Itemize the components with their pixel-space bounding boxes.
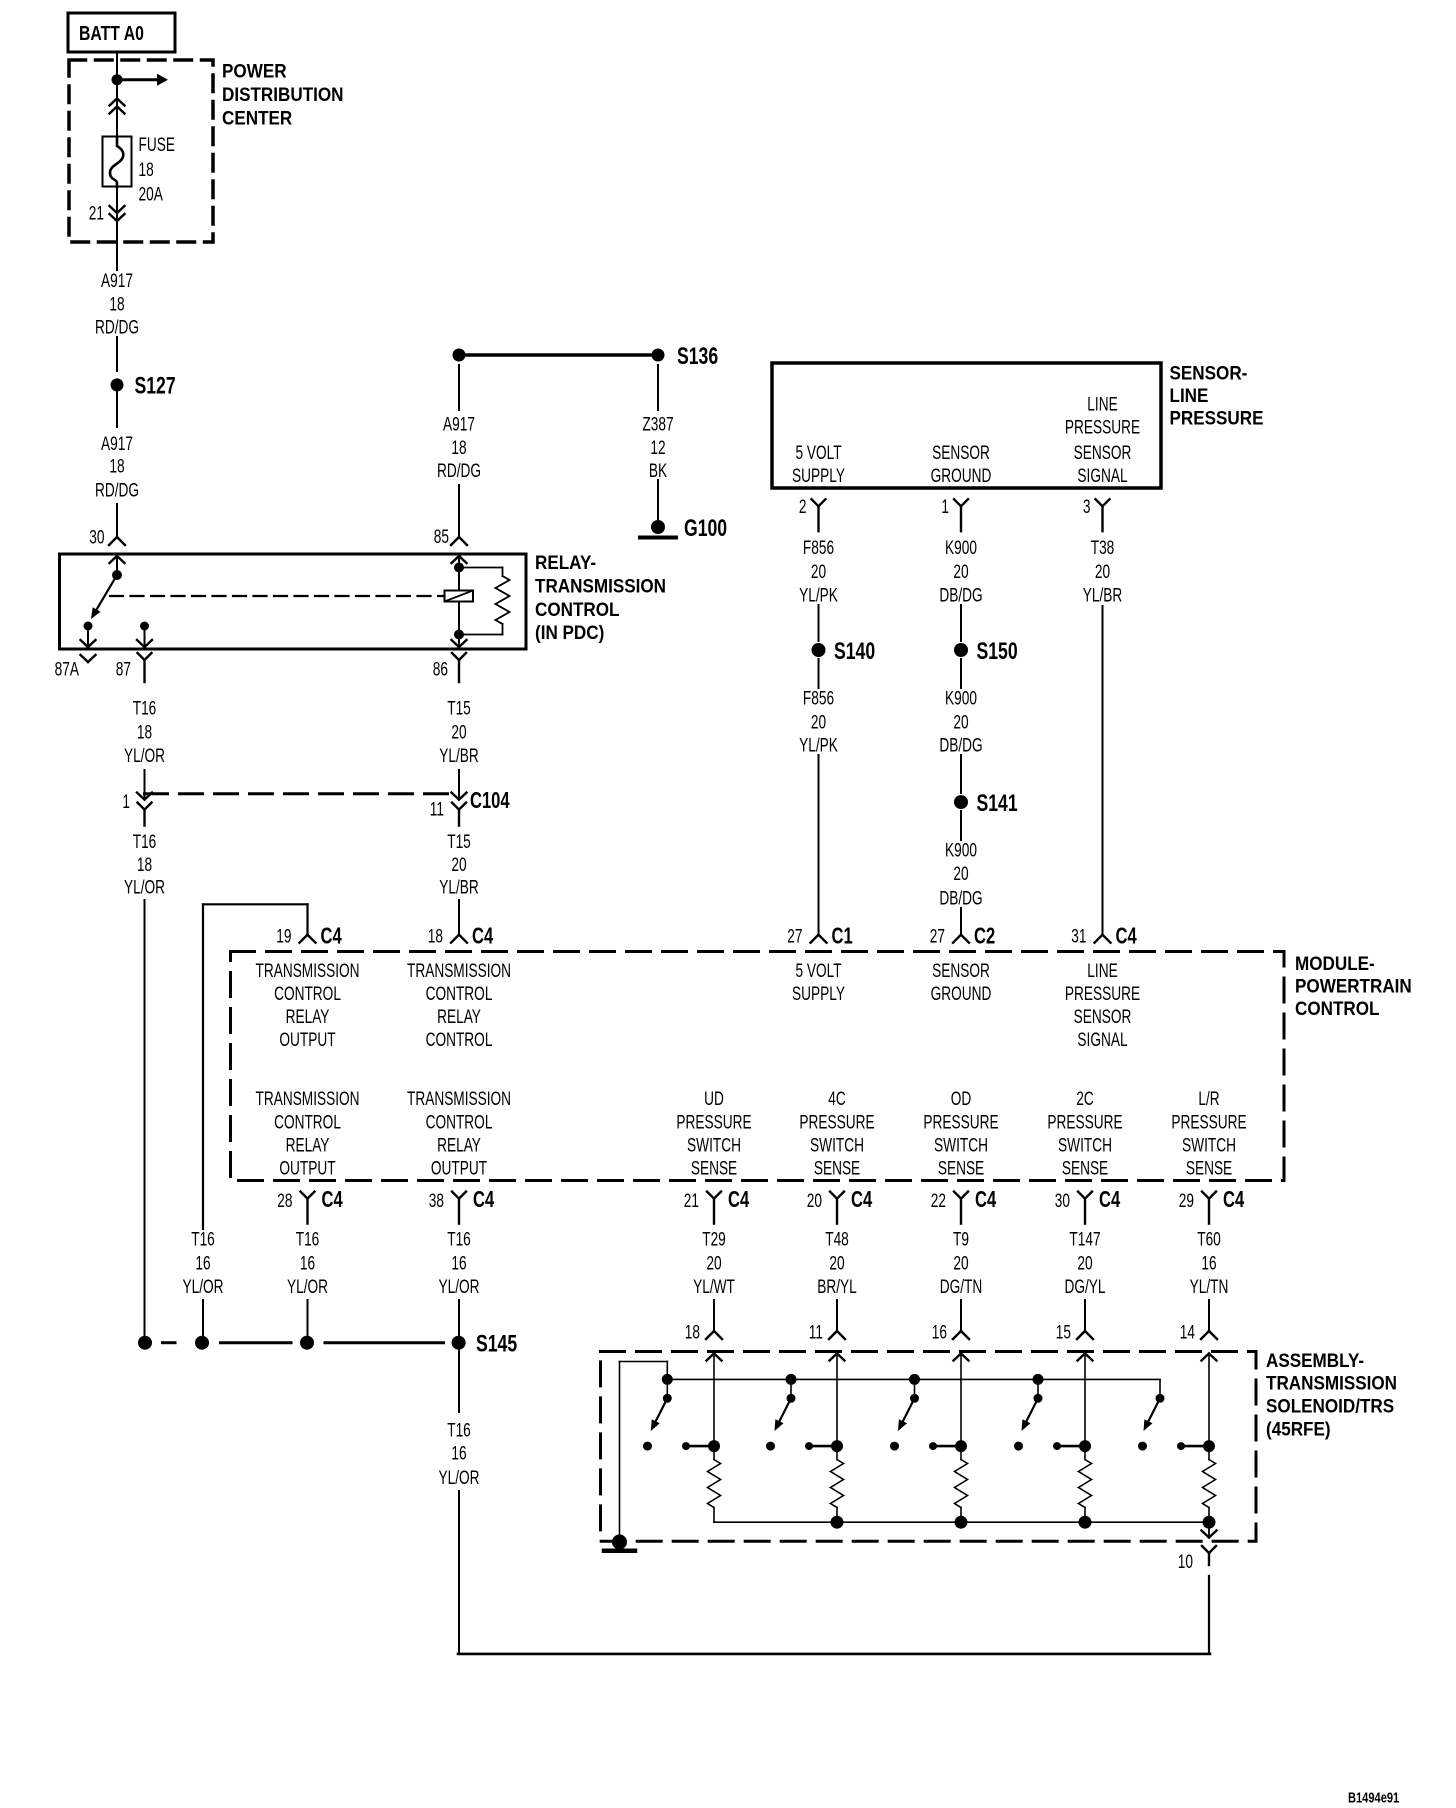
svg-text:DB/DG: DB/DG: [939, 584, 982, 606]
svg-text:BR/YL: BR/YL: [817, 1276, 857, 1298]
svg-text:SUPPLY: SUPPLY: [792, 983, 845, 1005]
svg-text:B1494e91: B1494e91: [1348, 1789, 1399, 1806]
svg-text:SENSE: SENSE: [691, 1157, 737, 1179]
svg-text:12: 12: [650, 437, 665, 459]
svg-text:18: 18: [137, 854, 152, 876]
svg-text:SENSE: SENSE: [1062, 1157, 1108, 1179]
svg-text:16: 16: [300, 1252, 315, 1274]
svg-text:20: 20: [811, 711, 826, 733]
svg-text:S127: S127: [135, 372, 176, 400]
svg-text:T16: T16: [133, 697, 157, 719]
svg-text:SENSOR: SENSOR: [1074, 442, 1132, 464]
svg-text:SWITCH: SWITCH: [687, 1134, 741, 1156]
svg-text:10: 10: [1178, 1551, 1193, 1573]
svg-text:20: 20: [451, 721, 466, 743]
svg-text:SENSE: SENSE: [814, 1157, 860, 1179]
svg-text:CENTER: CENTER: [222, 107, 292, 128]
svg-text:A917: A917: [101, 433, 133, 455]
svg-text:20: 20: [953, 561, 968, 583]
svg-text:CONTROL: CONTROL: [274, 983, 341, 1005]
svg-text:L/R: L/R: [1198, 1088, 1219, 1110]
svg-text:PRESSURE: PRESSURE: [923, 1111, 998, 1133]
svg-text:PRESSURE: PRESSURE: [1047, 1111, 1122, 1133]
svg-text:A917: A917: [443, 413, 475, 435]
svg-text:RD/DG: RD/DG: [437, 460, 481, 482]
svg-text:G100: G100: [684, 514, 727, 542]
svg-text:CONTROL: CONTROL: [535, 599, 619, 620]
svg-text:21: 21: [684, 1190, 699, 1212]
svg-text:K900: K900: [945, 537, 977, 559]
svg-text:DG/YL: DG/YL: [1064, 1276, 1105, 1298]
svg-text:PRESSURE: PRESSURE: [1171, 1111, 1246, 1133]
svg-text:PRESSURE: PRESSURE: [1065, 983, 1140, 1005]
svg-text:T16: T16: [133, 831, 157, 853]
svg-text:T15: T15: [447, 697, 471, 719]
svg-text:F856: F856: [803, 687, 834, 709]
svg-text:C2: C2: [974, 924, 995, 949]
svg-text:T16: T16: [296, 1228, 320, 1250]
svg-text:S145: S145: [476, 1330, 517, 1358]
svg-text:T147: T147: [1069, 1228, 1100, 1250]
svg-text:DISTRIBUTION: DISTRIBUTION: [222, 84, 344, 105]
svg-text:SWITCH: SWITCH: [1058, 1134, 1112, 1156]
svg-text:18: 18: [137, 721, 152, 743]
svg-text:YL/WT: YL/WT: [693, 1276, 735, 1298]
svg-text:27: 27: [930, 925, 945, 947]
svg-text:POWER: POWER: [222, 60, 287, 81]
svg-text:11: 11: [430, 798, 444, 820]
svg-text:27: 27: [787, 925, 802, 947]
svg-text:14: 14: [1180, 1321, 1195, 1343]
svg-text:T9: T9: [953, 1228, 969, 1250]
svg-text:4C: 4C: [828, 1088, 846, 1110]
svg-text:20: 20: [811, 561, 826, 583]
svg-text:18: 18: [109, 455, 124, 477]
svg-text:20: 20: [451, 854, 466, 876]
svg-text:YL/BR: YL/BR: [1083, 584, 1123, 606]
svg-text:20: 20: [1077, 1252, 1092, 1274]
svg-text:15: 15: [1056, 1321, 1071, 1343]
svg-text:SWITCH: SWITCH: [810, 1134, 864, 1156]
svg-text:POWERTRAIN: POWERTRAIN: [1295, 976, 1412, 997]
svg-text:BK: BK: [649, 460, 667, 482]
svg-text:20: 20: [706, 1252, 721, 1274]
svg-text:30: 30: [1055, 1190, 1070, 1212]
svg-text:OUTPUT: OUTPUT: [279, 1029, 335, 1051]
svg-text:SIGNAL: SIGNAL: [1077, 465, 1127, 487]
svg-text:OD: OD: [951, 1088, 972, 1110]
svg-text:RD/DG: RD/DG: [95, 316, 139, 338]
svg-text:A917: A917: [101, 270, 133, 292]
svg-text:CONTROL: CONTROL: [274, 1111, 341, 1133]
svg-text:T16: T16: [191, 1228, 215, 1250]
svg-text:SUPPLY: SUPPLY: [792, 465, 845, 487]
svg-text:18: 18: [109, 293, 124, 315]
svg-text:ASSEMBLY-: ASSEMBLY-: [1266, 1350, 1364, 1371]
svg-text:T60: T60: [1197, 1228, 1221, 1250]
svg-text:YL/PK: YL/PK: [799, 734, 838, 756]
svg-text:5 VOLT: 5 VOLT: [795, 960, 841, 982]
svg-text:FUSE: FUSE: [139, 134, 175, 156]
svg-text:87: 87: [116, 658, 131, 680]
svg-text:T48: T48: [825, 1228, 849, 1250]
svg-text:18: 18: [139, 159, 154, 181]
svg-text:YL/OR: YL/OR: [438, 1276, 479, 1298]
svg-text:2C: 2C: [1076, 1088, 1094, 1110]
svg-text:SENSOR-: SENSOR-: [1170, 362, 1248, 383]
svg-text:T15: T15: [447, 831, 471, 853]
svg-text:18: 18: [685, 1321, 700, 1343]
svg-text:GROUND: GROUND: [931, 983, 992, 1005]
svg-text:C1: C1: [832, 924, 853, 949]
svg-text:20: 20: [1095, 561, 1110, 583]
svg-text:DG/TN: DG/TN: [940, 1276, 983, 1298]
svg-text:TRANSMISSION: TRANSMISSION: [535, 576, 666, 597]
svg-text:SENSOR: SENSOR: [932, 442, 990, 464]
svg-text:CONTROL: CONTROL: [426, 1111, 493, 1133]
svg-text:SENSOR: SENSOR: [932, 960, 990, 982]
svg-text:RELAY-: RELAY-: [535, 552, 596, 573]
svg-text:20: 20: [953, 1252, 968, 1274]
svg-text:20: 20: [953, 711, 968, 733]
svg-text:T16: T16: [447, 1419, 471, 1441]
svg-text:TRANSMISSION: TRANSMISSION: [255, 1088, 359, 1110]
svg-text:11: 11: [809, 1321, 823, 1343]
svg-text:C4: C4: [1223, 1188, 1245, 1213]
svg-text:BATT A0: BATT A0: [79, 22, 144, 44]
svg-text:CONTROL: CONTROL: [426, 1029, 493, 1051]
svg-text:PRESSURE: PRESSURE: [1170, 408, 1264, 429]
svg-text:MODULE-: MODULE-: [1295, 953, 1375, 974]
svg-text:S136: S136: [677, 342, 718, 370]
svg-text:87A: 87A: [55, 658, 79, 680]
svg-text:C104: C104: [470, 789, 510, 814]
svg-text:(IN PDC): (IN PDC): [535, 622, 604, 643]
svg-text:Z387: Z387: [642, 413, 673, 435]
svg-text:S140: S140: [834, 637, 875, 665]
svg-text:1: 1: [122, 791, 130, 813]
svg-text:18: 18: [451, 437, 466, 459]
svg-text:T16: T16: [447, 1228, 471, 1250]
svg-text:YL/OR: YL/OR: [287, 1276, 328, 1298]
svg-text:YL/OR: YL/OR: [124, 876, 165, 898]
svg-text:C4: C4: [322, 1188, 344, 1213]
svg-text:85: 85: [434, 526, 449, 548]
svg-text:CONTROL: CONTROL: [1295, 998, 1379, 1019]
svg-text:UD: UD: [704, 1088, 724, 1110]
svg-text:20A: 20A: [139, 183, 163, 205]
svg-text:29: 29: [1179, 1190, 1194, 1212]
svg-text:86: 86: [433, 658, 448, 680]
svg-text:28: 28: [277, 1190, 292, 1212]
svg-text:SENSE: SENSE: [1186, 1157, 1232, 1179]
svg-text:LINE: LINE: [1087, 393, 1117, 415]
svg-text:16: 16: [195, 1252, 210, 1274]
svg-text:16: 16: [1201, 1252, 1216, 1274]
svg-text:16: 16: [451, 1442, 466, 1464]
svg-text:YL/OR: YL/OR: [124, 745, 165, 767]
svg-text:PRESSURE: PRESSURE: [676, 1111, 751, 1133]
svg-text:20: 20: [953, 863, 968, 885]
svg-text:16: 16: [932, 1321, 947, 1343]
svg-text:SWITCH: SWITCH: [1182, 1134, 1236, 1156]
svg-text:30: 30: [89, 526, 104, 548]
svg-text:18: 18: [428, 925, 443, 947]
svg-text:TRANSMISSION: TRANSMISSION: [407, 960, 511, 982]
svg-text:PRESSURE: PRESSURE: [799, 1111, 874, 1133]
svg-text:C4: C4: [472, 924, 494, 949]
svg-text:S150: S150: [977, 637, 1018, 665]
svg-text:C4: C4: [473, 1188, 495, 1213]
svg-text:TRANSMISSION: TRANSMISSION: [407, 1088, 511, 1110]
svg-text:SOLENOID/TRS: SOLENOID/TRS: [1266, 1396, 1394, 1417]
svg-text:YL/PK: YL/PK: [799, 584, 838, 606]
svg-text:19: 19: [276, 925, 291, 947]
svg-text:C4: C4: [851, 1188, 873, 1213]
svg-text:DB/DG: DB/DG: [939, 887, 982, 909]
svg-text:SENSOR: SENSOR: [1074, 1006, 1132, 1028]
svg-text:F856: F856: [803, 537, 834, 559]
svg-text:TRANSMISSION: TRANSMISSION: [1266, 1373, 1397, 1394]
svg-text:OUTPUT: OUTPUT: [279, 1157, 335, 1179]
svg-text:5 VOLT: 5 VOLT: [795, 442, 841, 464]
svg-text:T29: T29: [702, 1228, 726, 1250]
svg-text:CONTROL: CONTROL: [426, 983, 493, 1005]
svg-text:OUTPUT: OUTPUT: [431, 1157, 487, 1179]
svg-text:SIGNAL: SIGNAL: [1077, 1029, 1127, 1051]
svg-text:YL/OR: YL/OR: [182, 1276, 223, 1298]
svg-text:3: 3: [1083, 496, 1091, 518]
svg-text:K900: K900: [945, 839, 977, 861]
svg-text:C4: C4: [321, 924, 343, 949]
svg-text:RELAY: RELAY: [437, 1134, 481, 1156]
svg-text:YL/OR: YL/OR: [438, 1467, 479, 1489]
svg-text:C4: C4: [728, 1188, 750, 1213]
svg-text:20: 20: [807, 1190, 822, 1212]
svg-text:16: 16: [451, 1252, 466, 1274]
svg-text:S141: S141: [977, 789, 1018, 817]
svg-text:C4: C4: [975, 1188, 997, 1213]
svg-text:22: 22: [931, 1190, 946, 1212]
svg-text:20: 20: [829, 1252, 844, 1274]
svg-text:RD/DG: RD/DG: [95, 479, 139, 501]
svg-text:PRESSURE: PRESSURE: [1065, 416, 1140, 438]
svg-text:RELAY: RELAY: [437, 1006, 481, 1028]
svg-text:2: 2: [799, 496, 807, 518]
svg-text:DB/DG: DB/DG: [939, 734, 982, 756]
svg-text:38: 38: [429, 1190, 444, 1212]
svg-text:RELAY: RELAY: [286, 1134, 330, 1156]
svg-text:SENSE: SENSE: [938, 1157, 984, 1179]
svg-text:YL/BR: YL/BR: [439, 876, 479, 898]
svg-text:SWITCH: SWITCH: [934, 1134, 988, 1156]
svg-text:YL/BR: YL/BR: [439, 745, 479, 767]
svg-text:K900: K900: [945, 687, 977, 709]
svg-text:TRANSMISSION: TRANSMISSION: [255, 960, 359, 982]
svg-text:YL/TN: YL/TN: [1190, 1276, 1229, 1298]
svg-text:C4: C4: [1116, 924, 1138, 949]
svg-text:C4: C4: [1099, 1188, 1121, 1213]
svg-text:31: 31: [1071, 925, 1086, 947]
svg-text:RELAY: RELAY: [286, 1006, 330, 1028]
svg-text:21: 21: [89, 202, 104, 224]
svg-text:1: 1: [941, 496, 949, 518]
svg-text:(45RFE): (45RFE): [1266, 1419, 1331, 1440]
svg-text:LINE: LINE: [1170, 385, 1209, 406]
svg-text:T38: T38: [1091, 537, 1115, 559]
svg-text:LINE: LINE: [1087, 960, 1117, 982]
svg-text:GROUND: GROUND: [931, 465, 992, 487]
